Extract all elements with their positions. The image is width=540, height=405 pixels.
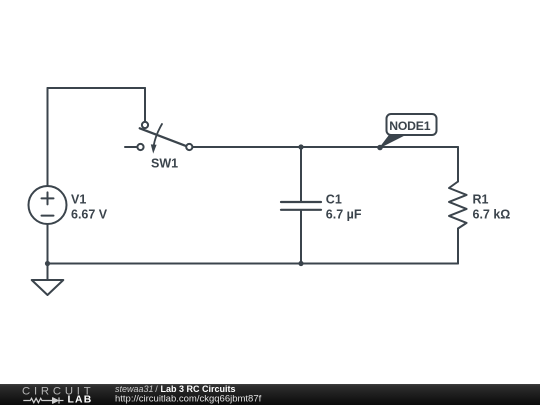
svg-text:6.7 kΩ: 6.7 kΩ bbox=[473, 208, 511, 222]
node NODE1 callout bbox=[377, 114, 436, 150]
footer title line bbox=[115, 384, 236, 394]
CircuitLab logo CIRCUIT text bbox=[22, 386, 94, 398]
wire right vertical bottom bbox=[457, 229, 459, 264]
CircuitLab logo LAB text bbox=[68, 395, 93, 405]
capacitor C1 bbox=[281, 147, 362, 264]
svg-text:R1: R1 bbox=[473, 193, 489, 207]
svg-text:http://circuitlab.com/ckgq66jb: http://circuitlab.com/ckgq66jbmt87f bbox=[115, 393, 262, 404]
footer bar bbox=[0, 384, 540, 405]
wire left vertical upper bbox=[47, 88, 49, 186]
voltage source V1 bbox=[29, 186, 108, 224]
svg-text:V1: V1 bbox=[71, 193, 86, 207]
resistor R1 bbox=[449, 182, 510, 229]
svg-text:NODE1: NODE1 bbox=[389, 119, 430, 133]
switch SW1 bbox=[125, 122, 192, 171]
svg-text:LAB: LAB bbox=[68, 395, 93, 405]
footer url line bbox=[115, 393, 262, 404]
node junction bottom-left bbox=[45, 261, 50, 266]
node junction capacitor top bbox=[298, 144, 303, 149]
wire top-left horizontal bbox=[48, 87, 146, 89]
svg-text:6.67 V: 6.67 V bbox=[71, 208, 108, 222]
node junction capacitor bottom bbox=[298, 261, 303, 266]
wire switch drop vertical bbox=[144, 88, 146, 121]
wire switch to right corner bbox=[193, 146, 458, 148]
ground bbox=[32, 280, 64, 295]
svg-text:SW1: SW1 bbox=[151, 157, 178, 171]
wire bottom horizontal bbox=[48, 263, 459, 265]
svg-text:C1: C1 bbox=[326, 193, 342, 207]
CircuitLab logo circuit doodle (resistor + diode) bbox=[23, 397, 63, 403]
wire right vertical top bbox=[457, 147, 459, 182]
wire left vertical lower bbox=[47, 224, 49, 280]
svg-text:6.7 µF: 6.7 µF bbox=[326, 208, 362, 222]
